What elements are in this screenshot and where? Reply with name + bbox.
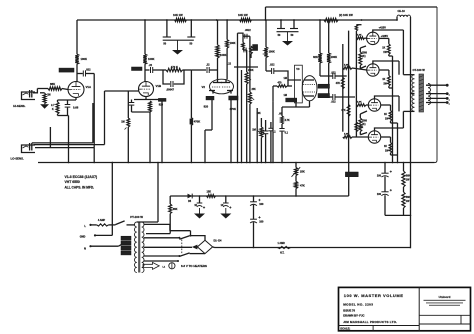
svg-text:H.T.: H.T. xyxy=(280,251,285,254)
svg-text:5.6K: 5.6K xyxy=(344,134,349,136)
svg-text:250K: 250K xyxy=(248,70,254,72)
svg-text:PT-100 W: PT-100 W xyxy=(130,215,143,219)
svg-text:25K: 25K xyxy=(252,89,257,91)
svg-text:V1B: V1B xyxy=(156,84,162,88)
svg-text:DRAWN BY- FJC: DRAWN BY- FJC xyxy=(343,314,364,318)
svg-text:1M: 1M xyxy=(284,77,287,80)
svg-text:(K): (K) xyxy=(362,56,365,58)
svg-text:(K): (K) xyxy=(362,124,365,126)
svg-text:100K: 100K xyxy=(148,57,154,61)
svg-text:.00047: .00047 xyxy=(166,88,174,92)
svg-text:HI-SENS.: HI-SENS. xyxy=(13,104,25,108)
svg-text:.0022: .0022 xyxy=(245,29,252,32)
svg-text:100K: 100K xyxy=(331,55,337,59)
svg-text:.022: .022 xyxy=(86,67,92,71)
svg-text:LO-SENS.: LO-SENS. xyxy=(11,157,24,161)
svg-text:100K: 100K xyxy=(230,42,236,45)
svg-text:68K: 68K xyxy=(173,208,178,211)
svg-text:100K: 100K xyxy=(269,50,275,54)
svg-text:1M: 1M xyxy=(47,94,50,97)
svg-text:100K: 100K xyxy=(81,57,87,61)
svg-text:100: 100 xyxy=(259,220,264,223)
svg-text:(2) 10K 1W: (2) 10K 1W xyxy=(339,13,353,17)
svg-text:5.6K: 5.6K xyxy=(357,35,362,37)
svg-text:1 AMP.: 1 AMP. xyxy=(278,242,286,245)
svg-text:100: 100 xyxy=(377,193,382,196)
svg-text:VHT 6550: VHT 6550 xyxy=(65,180,80,184)
svg-text:1K: 1K xyxy=(382,79,385,81)
svg-text:1K: 1K xyxy=(384,114,387,116)
svg-text:56K: 56K xyxy=(257,113,262,115)
svg-text:1K: 1K xyxy=(382,47,385,49)
svg-text:470K: 470K xyxy=(194,120,200,124)
svg-text:V2: V2 xyxy=(202,85,206,89)
svg-text:ALL CAPS. IN MFD.: ALL CAPS. IN MFD. xyxy=(65,186,95,190)
svg-text:4.7K: 4.7K xyxy=(285,119,290,122)
svg-text:47K: 47K xyxy=(336,82,341,85)
svg-text:Unicord: Unicord xyxy=(439,295,451,299)
svg-text:15K: 15K xyxy=(207,190,212,193)
svg-text:1K: 1K xyxy=(384,146,387,148)
svg-text:820: 820 xyxy=(204,105,209,109)
svg-text:.022: .022 xyxy=(331,101,336,104)
svg-text:6.3 V TO HEATERS: 6.3 V TO HEATERS xyxy=(181,264,207,268)
svg-text:100 W. MASTER VOLUME: 100 W. MASTER VOLUME xyxy=(344,293,404,298)
svg-text:2.7: 2.7 xyxy=(51,104,55,107)
svg-text:JIM MARSHALL PRODUCTS LTD.: JIM MARSHALL PRODUCTS LTD. xyxy=(343,320,397,324)
svg-text:100: 100 xyxy=(377,174,382,177)
svg-text:N: N xyxy=(84,246,86,250)
svg-text:47K: 47K xyxy=(341,109,346,112)
svg-text:+425V: +425V xyxy=(379,26,387,29)
svg-text:.022: .022 xyxy=(270,64,275,67)
svg-text:.22: .22 xyxy=(149,63,153,67)
svg-text:V3: V3 xyxy=(296,67,300,71)
svg-text:SCALE:: SCALE: xyxy=(340,327,350,331)
svg-text:56K: 56K xyxy=(406,196,411,199)
svg-text:ISSUE 76: ISSUE 76 xyxy=(343,308,355,312)
svg-text:.22: .22 xyxy=(206,63,210,67)
svg-text:MODEL NO. 2203: MODEL NO. 2203 xyxy=(343,302,373,306)
svg-text:1500: 1500 xyxy=(362,121,368,123)
svg-text:1M: 1M xyxy=(121,121,124,124)
svg-text:820: 820 xyxy=(159,104,164,107)
svg-text:1500: 1500 xyxy=(362,53,368,55)
svg-text:1M: 1M xyxy=(284,94,287,97)
svg-text:68K: 68K xyxy=(50,82,55,86)
svg-text:470: 470 xyxy=(278,81,283,84)
svg-text:CH-10: CH-10 xyxy=(398,10,406,13)
svg-text:10K 1W: 10K 1W xyxy=(173,13,183,17)
svg-text:5.6K: 5.6K xyxy=(357,102,362,104)
svg-text:82K: 82K xyxy=(313,55,318,59)
svg-text:.22: .22 xyxy=(228,63,232,66)
svg-text:V1-3 ECC83 (12AX7): V1-3 ECC83 (12AX7) xyxy=(65,175,98,179)
svg-text:47K: 47K xyxy=(300,183,305,187)
svg-text:10K 1W: 10K 1W xyxy=(238,13,248,17)
svg-text:4 AMP: 4 AMP xyxy=(98,219,106,222)
svg-text:470 K: 470 K xyxy=(171,65,178,69)
svg-text:1M: 1M xyxy=(252,127,256,131)
svg-text:K: K xyxy=(52,108,54,111)
svg-text:56K: 56K xyxy=(406,175,411,178)
svg-text:0.68: 0.68 xyxy=(73,106,79,110)
svg-text:25K: 25K xyxy=(300,170,305,174)
svg-text:OT-100 W: OT-100 W xyxy=(413,68,426,72)
svg-text:5.6K: 5.6K xyxy=(344,65,349,67)
svg-text:GND: GND xyxy=(80,236,86,239)
svg-text:100K: 100K xyxy=(220,53,227,57)
svg-text:100: 100 xyxy=(259,203,264,206)
svg-text:D1- D4: D1- D4 xyxy=(214,240,223,243)
svg-text:V1A: V1A xyxy=(86,85,93,89)
